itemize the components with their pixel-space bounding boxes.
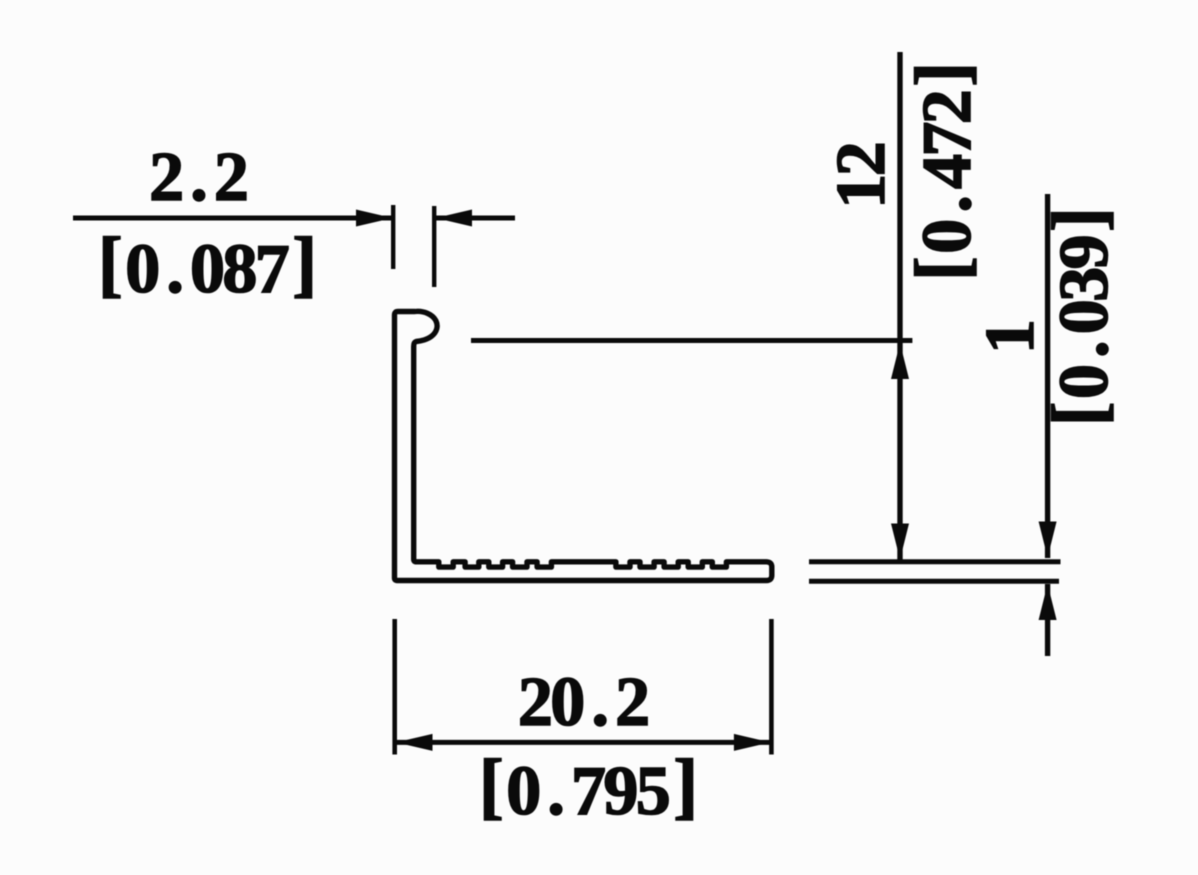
arrowhead 1 up-pointing <box>1039 584 1057 620</box>
dim 2.2: extension line right <box>432 206 436 287</box>
profile outline of L-shaped trim <box>395 311 772 580</box>
svg-text:[0.039]: [0.039] <box>1038 207 1123 426</box>
arrowhead 2.2 left-pointing <box>436 210 473 227</box>
dim 12: vertical dimension line <box>897 52 902 560</box>
arrowhead 12 down-pointing <box>891 524 909 560</box>
dim 20.2: extension line right <box>769 619 774 755</box>
arrowhead 1 down-pointing <box>1039 522 1057 558</box>
svg-text:[0.472]: [0.472] <box>901 62 986 281</box>
dim 1: thickness reference line top <box>809 559 1061 564</box>
dim 1: vertical tail lower <box>1045 584 1050 656</box>
arrowhead 2.2 right-pointing <box>356 210 393 227</box>
dim 20.2: extension line left <box>392 619 397 755</box>
svg-text:[0.795]: [0.795] <box>479 745 698 830</box>
arrowhead 20.2 left-pointing <box>396 734 433 751</box>
svg-text:12: 12 <box>823 141 900 208</box>
svg-text:2.2: 2.2 <box>149 139 249 216</box>
dim 2.2: dimension line right tail <box>436 216 515 221</box>
svg-text:[0.087]: [0.087] <box>98 223 317 308</box>
dim 12: horizontal reference line (top of 12) <box>471 338 912 343</box>
dim 2.2: dimension line left part <box>73 216 392 221</box>
svg-text:1: 1 <box>972 319 1049 354</box>
svg-text:20.2: 20.2 <box>518 664 650 741</box>
arrowhead 20.2 right-pointing <box>734 734 771 751</box>
dim 1: vertical dimension line upper <box>1045 194 1050 558</box>
dim 1: thickness reference line bottom <box>809 579 1059 584</box>
dim 2.2: extension line left <box>391 205 395 269</box>
dim 20.2: dimension line <box>395 740 771 745</box>
arrowhead 12 up-pointing <box>891 343 909 379</box>
